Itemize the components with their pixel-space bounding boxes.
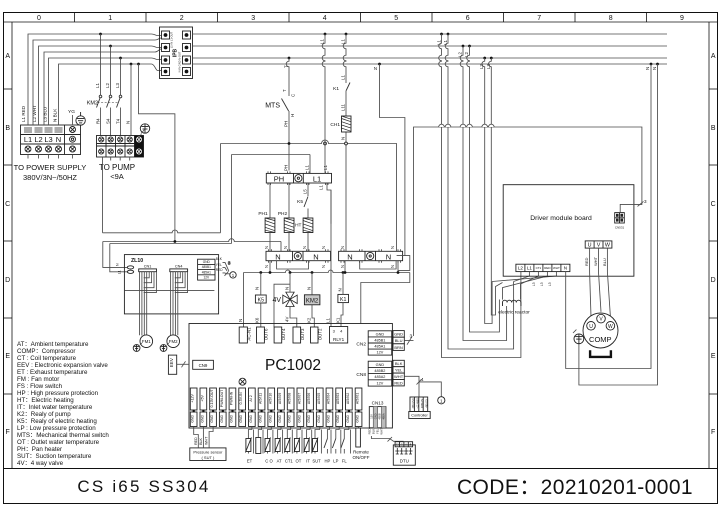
svg-text:0-5V-IN: 0-5V-IN [239, 392, 243, 405]
svg-text:K1: K1 [333, 86, 339, 92]
svg-text:485A1: 485A1 [374, 345, 385, 349]
svg-text:GND: GND [374, 413, 378, 419]
svg-text:485A2: 485A2 [374, 375, 385, 379]
svg-text:L3: L3 [540, 282, 544, 286]
svg-text:AI5/I04: AI5/I04 [327, 393, 331, 404]
svg-text:N: N [652, 67, 657, 70]
svg-text:electric reactor: electric reactor [498, 310, 530, 316]
svg-text:N: N [283, 246, 288, 249]
svg-text:AI5/I01: AI5/I01 [356, 393, 360, 404]
svg-text:A: A [5, 53, 10, 60]
svg-text:LP: LP [333, 459, 338, 464]
PE loop from bus around compressor [579, 64, 658, 385]
svg-text:GND: GND [356, 414, 360, 422]
board bottom GND row [190, 412, 362, 427]
svg-text:CT : Coil temperature: CT : Coil temperature [17, 355, 77, 362]
svg-text:GND: GND [376, 332, 385, 336]
wire loop under strip2 [360, 261, 396, 269]
N terminal strip 2 [339, 249, 403, 262]
svg-text:4V：4 way valve: 4V：4 way valve [17, 460, 64, 467]
pump terminal block [97, 136, 144, 158]
PC1002 board outline [189, 324, 392, 429]
CN8 wires to controller and marker 1 [404, 376, 441, 397]
svg-text:TO PUMP: TO PUMP [99, 163, 135, 172]
svg-text:485B1: 485B1 [374, 338, 385, 342]
svg-text:GND: GND [200, 414, 204, 422]
MTS thermal switch [265, 89, 295, 127]
N bus junction dots [259, 271, 399, 274]
bus L1 [193, 33, 668, 35]
svg-text:N: N [374, 66, 377, 71]
svg-text:N: N [116, 263, 120, 266]
svg-text:C: C [5, 201, 10, 208]
svg-text:L2: L2 [464, 52, 469, 57]
svg-text:RED: RED [216, 268, 223, 272]
CN2 merge wires to comm [404, 336, 413, 344]
svg-text:ON/OFF: ON/OFF [353, 455, 370, 460]
screw terminals bottom row [25, 127, 76, 153]
CN13 to DTU wire [371, 436, 403, 442]
svg-text:N: N [313, 252, 318, 261]
CN13 connector on board [369, 401, 386, 428]
sensor ET [245, 427, 253, 464]
svg-text:N-IN GND N-OUT: N-IN GND N-OUT [178, 51, 182, 72]
svg-text:L1: L1 [95, 83, 100, 88]
svg-text:BLU: BLU [602, 258, 607, 266]
CN531 connector on driver board [615, 213, 625, 230]
MTS branch wire [286, 58, 289, 171]
CN2 connector rows [356, 331, 391, 355]
contactor coil KM2 [304, 273, 320, 328]
svg-text:AT：Ambient temperature: AT：Ambient temperature [17, 341, 89, 348]
svg-text:4V: 4V [272, 297, 281, 304]
board bottom terminal strip [190, 388, 362, 410]
svg-text:B: B [5, 125, 10, 132]
svg-text:L3: L3 [44, 135, 52, 144]
4-way valve symbol 4V [272, 273, 297, 328]
svg-text:L2: L2 [105, 83, 110, 88]
CN9 connector on board [193, 360, 214, 369]
svg-text:F: F [6, 429, 10, 436]
svg-text:GND: GND [210, 414, 214, 422]
svg-text:D: D [711, 277, 716, 284]
svg-text:K5：Realy of electric heating: K5：Realy of electric heating [17, 418, 97, 425]
board top terminal AC-N1 [239, 327, 251, 343]
svg-text:HP: HP [324, 459, 330, 464]
fuse ellipse on L1 input [127, 266, 133, 269]
svg-text:N: N [275, 252, 280, 261]
loop rect right of strip2 [397, 256, 410, 271]
svg-text:GND: GND [346, 414, 350, 422]
svg-text:BRN: BRN [394, 345, 403, 350]
board bottom terminal labels [191, 389, 360, 408]
svg-text:COMP：Compressor: COMP：Compressor [17, 348, 75, 355]
wire L2a drop loop [460, 46, 506, 341]
svg-text:OUT2: OUT2 [317, 328, 322, 340]
svg-text:L3: L3 [548, 282, 552, 286]
svg-text:BLK: BLK [216, 257, 223, 261]
fan motor FM2 [167, 335, 180, 348]
svg-text:G: G [401, 443, 403, 446]
N loop from bus to driver board N terminal [566, 64, 651, 369]
K1 contact branch with CH1 heater [343, 34, 396, 251]
YG wire and label [68, 109, 75, 125]
svg-text:WHT: WHT [593, 256, 598, 266]
svg-text:KM2: KM2 [306, 299, 319, 305]
svg-text:N: N [340, 246, 345, 249]
svg-text:L2: L2 [458, 52, 463, 57]
power terminal block TO POWER SUPPLY [21, 125, 81, 155]
svg-text:GND: GND [327, 414, 331, 422]
pressure sensor box [190, 448, 226, 461]
svg-text:2: 2 [180, 15, 184, 22]
svg-text:AI5/I07: AI5/I07 [297, 393, 301, 404]
svg-text:BLK: BLK [199, 438, 203, 445]
svg-text:N: N [238, 319, 243, 322]
svg-text:485B: 485B [378, 413, 382, 419]
svg-text:L1: L1 [305, 165, 310, 170]
svg-text:L1: L1 [118, 270, 122, 274]
svg-text:C O: C O [265, 459, 273, 464]
wired controller connector [409, 397, 430, 419]
svg-text:RLY1: RLY1 [333, 337, 345, 342]
EEV electronic expansion valve [168, 355, 176, 374]
svg-text:PH: PH [284, 165, 289, 171]
wire L2b drop loop [467, 46, 500, 332]
svg-text:EEV : Electronic expansion val: EEV : Electronic expansion valve [17, 362, 108, 369]
sensor AT [275, 427, 283, 464]
wire loop under strip1 [277, 261, 309, 269]
reactor link wires [492, 272, 556, 300]
internal wire inside ZL10 [124, 290, 214, 292]
svg-text:AI5/I11: AI5/I11 [259, 393, 263, 404]
svg-text:U: U [589, 324, 593, 330]
top coordinate ticks [75, 13, 647, 23]
svg-text:N: N [264, 265, 269, 268]
CN4 fan connector [170, 265, 188, 272]
driver board input terminals L2 L1 CT1 RED WHT N [516, 264, 570, 271]
wire L1 [28, 34, 99, 125]
wire L2 continue to IPB terminal 2 [112, 46, 162, 48]
comm wire 3/ from CN2 to CN531 [414, 127, 648, 336]
svg-text:COMP: COMP [589, 335, 612, 344]
svg-text:AC-N1: AC-N1 [246, 327, 251, 341]
svg-text:U: U [588, 242, 592, 248]
svg-text:L2: L2 [34, 135, 42, 144]
svg-text:PH: PH [274, 175, 284, 184]
svg-text:( SUT ): ( SUT ) [201, 455, 214, 460]
wire N continue to IPB terminal 4 [139, 64, 162, 71]
svg-text:L11: L11 [341, 103, 346, 111]
svg-text:K2：Realy of pump: K2：Realy of pump [17, 411, 71, 418]
relay coil K1 [336, 273, 349, 327]
svg-text:N: N [56, 135, 61, 144]
svg-text:12V: 12V [369, 414, 373, 419]
svg-text:FM : Fan motor: FM : Fan motor [17, 376, 59, 383]
wire L3b drop loop [489, 58, 503, 315]
svg-text:GND: GND [249, 414, 253, 422]
svg-text:0: 0 [37, 15, 41, 22]
rail corner left to pump L1 [102, 144, 220, 233]
fan motor FM1 [140, 335, 153, 348]
svg-text:GND: GND [239, 414, 243, 422]
svg-text:HP : High pressure protection: HP : High pressure protection [17, 390, 99, 397]
relay coil K5 [254, 273, 266, 328]
svg-text:N: N [321, 265, 326, 268]
svg-text:K6: K6 [254, 317, 259, 323]
wire L1b drop loop [445, 34, 513, 349]
svg-text:AI5/I08: AI5/I08 [288, 393, 292, 404]
svg-text:PH：Pan heater: PH：Pan heater [17, 446, 62, 453]
svg-text:FM2: FM2 [169, 339, 178, 344]
ZL10 feed lines [103, 64, 281, 272]
svg-text:GND: GND [220, 414, 224, 422]
svg-text:N: N [390, 246, 395, 249]
DTU module [393, 442, 415, 465]
pressure sensor wire labels [194, 436, 209, 445]
svg-text:R4: R4 [96, 118, 101, 124]
CN2 wire color labels [393, 331, 404, 351]
sensor (pressure element) [256, 427, 263, 454]
svg-text:CN8: CN8 [356, 372, 366, 378]
fan1 wire bundle [140, 272, 157, 336]
N bus below strips [244, 261, 410, 324]
svg-text:YEL: YEL [216, 263, 222, 267]
svg-text:+5V: +5V [200, 395, 204, 402]
board top terminal OUT6 [257, 327, 269, 343]
svg-text:PH: PH [284, 121, 289, 127]
svg-text:H: H [290, 114, 295, 117]
bus N [193, 63, 668, 65]
svg-text:485A1: 485A1 [202, 270, 211, 274]
svg-text:YG: YG [68, 109, 75, 115]
svg-text:FL: FL [342, 459, 348, 464]
svg-text:FS : Flow switch: FS : Flow switch [17, 383, 63, 390]
FM1 earth [133, 343, 142, 351]
svg-text:1: 1 [440, 398, 443, 403]
net marker circled 1 [438, 397, 445, 404]
svg-text:RED: RED [394, 380, 403, 385]
svg-text:IT: IT [306, 459, 310, 464]
nested feeder wires from power terminals up to bus corners [28, 34, 162, 125]
svg-text:CS i65 SS304: CS i65 SS304 [77, 477, 210, 496]
wire L3 [49, 58, 123, 125]
CN8 wire color labels [393, 360, 404, 386]
svg-text:W: W [608, 324, 613, 330]
svg-text:N: N [347, 252, 352, 261]
ZL10 board outline [124, 255, 218, 314]
svg-text:WHT: WHT [394, 374, 404, 379]
svg-text:N: N [307, 287, 312, 290]
svg-text:OT: OT [295, 459, 301, 464]
svg-text:N: N [340, 265, 345, 268]
wire L3a drop loop [482, 58, 492, 324]
pressure sensor wires [194, 427, 213, 448]
svg-text:EEV: EEV [169, 357, 174, 367]
switch HP [324, 427, 331, 464]
svg-text:0-10V-OUT: 0-10V-OUT [210, 389, 214, 408]
svg-text:GND: GND [288, 414, 292, 422]
wire L1a drop loop to driver terminal L2 [439, 34, 521, 358]
svg-text:GND: GND [191, 414, 195, 422]
board top terminal OUT2 [311, 327, 323, 343]
svg-text:CN13: CN13 [372, 401, 384, 406]
KM2 phase wire labels L1 L2 L3 [95, 83, 120, 88]
sensor CT1 [284, 427, 293, 464]
IPB surge protector block [160, 27, 193, 79]
svg-text:WHT: WHT [380, 428, 384, 435]
ZL10 comm wire labels [216, 257, 223, 272]
N jog wire from bus to strip2 [380, 64, 405, 256]
svg-text:Pressure sensor: Pressure sensor [193, 449, 223, 454]
compressor earth symbol [573, 330, 584, 344]
svg-text:485 GD: 485 GD [425, 399, 428, 408]
svg-text:N: N [390, 265, 395, 268]
wire L3 continue to IPB terminal 3 [122, 58, 162, 60]
svg-text:L3 BLU: L3 BLU [43, 107, 48, 122]
left coordinate letters [5, 53, 10, 436]
svg-text:N: N [341, 137, 346, 140]
svg-text:L1: L1 [326, 318, 331, 323]
svg-text:12V: 12V [203, 276, 210, 280]
board top terminal OUT3 [293, 327, 305, 343]
svg-text:L1: L1 [24, 135, 32, 144]
svg-text:IT：Inlet water temperature: IT：Inlet water temperature [17, 404, 93, 411]
sensor OT [294, 427, 302, 464]
svg-text:L1 RED: L1 RED [21, 105, 26, 122]
svg-text:CT1: CT1 [536, 266, 542, 270]
svg-text:LP : Low pressure protection: LP : Low pressure protection [17, 425, 96, 432]
svg-text:L3: L3 [115, 83, 120, 88]
svg-text:4: 4 [421, 377, 424, 382]
ZL10 comm wires to marker 1 [223, 261, 232, 276]
junction dots feeders [99, 33, 140, 66]
svg-text:N: N [338, 288, 343, 291]
board relay terminal RLY1 [330, 327, 348, 344]
wires KM2 to pump block + labels R4 S4 T4 N [101, 64, 132, 136]
right coordinate letters [711, 53, 716, 436]
svg-text:OUT3: OUT3 [300, 328, 305, 340]
sensor SUT [312, 427, 321, 464]
svg-text:GND: GND [336, 414, 340, 422]
svg-text:FM1: FM1 [142, 339, 151, 344]
svg-text:RED: RED [544, 266, 551, 270]
svg-text:380V/3N~/50HZ: 380V/3N~/50HZ [23, 173, 77, 182]
PE earth symbol near pump [140, 124, 149, 136]
svg-text:CN2: CN2 [356, 342, 366, 348]
heater to N strip wires [270, 233, 308, 252]
switch FL [341, 427, 351, 464]
pump block bottom stubs [111, 157, 130, 161]
svg-text:V: V [597, 242, 601, 248]
svg-text:N: N [386, 252, 391, 261]
bus L2 [193, 45, 668, 47]
board top terminal OUT4 [274, 327, 286, 343]
svg-text:RED: RED [194, 437, 198, 445]
svg-text:K1: K1 [336, 317, 341, 323]
lamp symbol circled X on board [239, 378, 246, 385]
compressor wire labels RED WHT BLU [584, 256, 607, 266]
bus wire labels [284, 39, 658, 71]
svg-text:K5: K5 [297, 199, 303, 205]
CH1 crankcase heater coil [330, 116, 351, 140]
svg-text:PH1: PH1 [258, 211, 268, 217]
svg-text:Driver module board: Driver module board [530, 215, 592, 222]
svg-text:KM2: KM2 [87, 101, 98, 107]
svg-text:GND: GND [203, 260, 211, 264]
svg-text:6: 6 [466, 15, 470, 22]
svg-text:A: A [711, 53, 716, 60]
UVW wires to compressor [590, 248, 611, 317]
K1 contact [333, 75, 350, 111]
svg-text:GND: GND [297, 414, 301, 422]
svg-text:Remote: Remote [353, 450, 369, 455]
svg-text:L1: L1 [341, 75, 346, 80]
svg-text:AI5/I05: AI5/I05 [317, 393, 321, 404]
svg-text:3: 3 [251, 15, 255, 22]
svg-text:N: N [126, 121, 131, 124]
svg-text:+12V: +12V [191, 394, 195, 403]
CN8 connector rows [356, 361, 391, 386]
svg-text:L1-IN L1-OUT: L1-IN L1-OUT [170, 31, 174, 48]
driver board UVW terminals [585, 241, 612, 249]
heater feeders below strip [270, 183, 331, 224]
clamp hash marks row [24, 128, 63, 132]
GND labels [191, 414, 360, 422]
svg-text:L1: L1 [319, 185, 324, 190]
svg-text:AI5/I03: AI5/I03 [336, 393, 340, 404]
svg-text:SUT: SUT [312, 459, 321, 464]
PH / earth / L1 terminal strip [266, 171, 331, 185]
CN13 wire labels [367, 428, 383, 435]
fuse on ZL10 L1 input [127, 270, 133, 273]
svg-text:OUT4: OUT4 [281, 328, 286, 340]
svg-text:L5: L5 [303, 189, 308, 194]
svg-text:L1: L1 [313, 175, 321, 184]
svg-text:12V: 12V [377, 381, 384, 385]
L1 rail y143.5 [221, 140, 347, 144]
svg-text:GND: GND [230, 414, 234, 422]
svg-text:K1: K1 [340, 297, 346, 303]
svg-text:3: 3 [410, 334, 413, 340]
wire L2 [39, 46, 113, 125]
svg-text:OUT6: OUT6 [263, 328, 268, 340]
terminal labels L1 L2 L3 N [24, 135, 61, 144]
wire L1b to IPB [33, 38, 162, 125]
svg-text:N: N [302, 246, 307, 249]
svg-text:3: 3 [644, 199, 647, 204]
top coordinate numbers [37, 15, 684, 22]
svg-text:7: 7 [537, 15, 541, 22]
svg-text:C: C [711, 201, 716, 208]
svg-text:12V: 12V [377, 351, 384, 355]
svg-text:OT : Outlet water temperature: OT : Outlet water temperature [17, 439, 100, 446]
svg-text:N: N [321, 246, 326, 249]
svg-text:PC1002: PC1002 [265, 357, 321, 374]
svg-text:GND: GND [376, 363, 385, 367]
switch LP [332, 427, 340, 464]
wire labels L1 RED / L2 WHT / L3 BLU / N BLK [21, 105, 58, 122]
svg-text:TO POWER SUPPLY: TO POWER SUPPLY [14, 163, 87, 172]
svg-text:485 GND: 485 GND [412, 398, 415, 408]
ZL10 comm connector rows [198, 259, 215, 280]
right coordinate ticks [709, 89, 718, 394]
sensor IT [304, 427, 312, 464]
svg-text:AI5/I10: AI5/I10 [268, 393, 272, 404]
svg-text:CT1: CT1 [285, 459, 294, 464]
svg-text:N BLK: N BLK [53, 108, 58, 122]
svg-text:YEL: YEL [395, 368, 403, 373]
